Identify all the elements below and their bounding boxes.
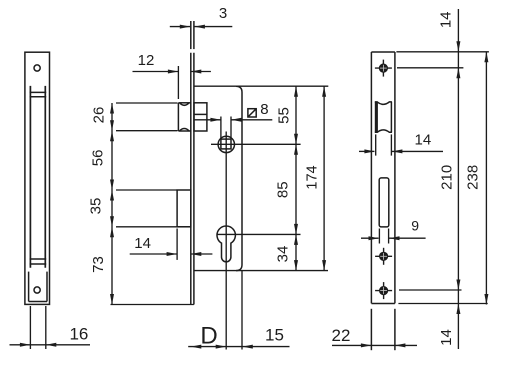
latch face top edge with concave dip: [375, 102, 392, 104]
svg-text:12: 12: [138, 52, 155, 69]
chain arrows at latch bottom: [110, 120, 114, 131]
dim 3 line right: [195, 26, 233, 28]
screw hole bottom: [375, 282, 392, 299]
chain arrow down at faceplate bottom: [110, 294, 114, 305]
extension line faceplate end: [398, 303, 487, 305]
square symbol of dim 8: [248, 109, 256, 117]
dim 8 line right: [231, 119, 272, 121]
left view channel lower edge: [30, 258, 47, 260]
right dimension chain line of middle view: [295, 86, 297, 270]
middle view faceplate left edge: [190, 53, 192, 305]
left dimension chain line: [111, 103, 113, 305]
chain arrow up at case top: [294, 86, 298, 97]
right view strip left edge: [370, 52, 372, 303]
right view strip top edge: [371, 51, 395, 53]
svg-text:22: 22: [332, 326, 351, 345]
chain arrows at deadbolt bottom: [110, 216, 114, 227]
dim 14 width arrow right: [392, 149, 403, 153]
lock case right edge with rounded corners: [236, 86, 242, 270]
svg-text:14: 14: [438, 329, 455, 346]
dim line 14 210 14: [457, 9, 459, 349]
svg-text:9: 9: [411, 218, 419, 234]
dim 9 arrow right: [389, 236, 400, 240]
dim 14 throw line right: [191, 253, 212, 255]
right view strip right edge: [394, 52, 396, 303]
dim 22 arrow right: [395, 343, 406, 347]
svg-text:238: 238: [464, 165, 481, 190]
dim D arrow left: [191, 345, 202, 349]
left chain extension deadbolt bottom: [116, 226, 190, 228]
latch face left thick bar: [375, 102, 378, 133]
chain arrows at deadbolt top: [110, 180, 114, 191]
chain arrow down at case bottom: [294, 260, 298, 271]
chain arrows at follower center: [294, 134, 298, 145]
screw hole top: [375, 60, 392, 77]
dim 16 line: [10, 344, 91, 346]
euro cylinder profile: [217, 226, 235, 262]
arrow up at faceplate end: [456, 304, 460, 315]
dim 14 throw arrow left: [167, 252, 178, 256]
svg-text:3: 3: [219, 5, 227, 22]
latch face bottom edge with concave rise: [375, 130, 392, 132]
cylinder horizontal centerline: [217, 233, 301, 235]
left chain extension latch top: [116, 102, 178, 104]
dim 9 line left: [361, 237, 379, 239]
dim 12 line left: [133, 71, 179, 73]
dim 174 line: [323, 86, 325, 270]
svg-text:85: 85: [275, 181, 292, 198]
deadbolt extended: [177, 190, 191, 227]
follower square hole: [221, 139, 231, 149]
dim 14 width extension left: [375, 134, 377, 155]
dim 14 width line right: [392, 150, 443, 152]
left view bottom bracket right wall: [46, 272, 48, 302]
dim 16 arrow right: [46, 343, 57, 347]
svg-text:14: 14: [415, 132, 432, 149]
left view top screw hole: [34, 65, 40, 71]
dim 12 extension line: [177, 66, 179, 99]
dim 9 arrow left: [369, 236, 380, 240]
dim 9 line right: [389, 237, 426, 239]
svg-text:8: 8: [260, 101, 268, 118]
faceplate end line across strip: [371, 303, 395, 305]
dim 22 line: [332, 344, 417, 346]
case right edge extension line down: [241, 271, 243, 350]
dim 3 arrow right: [194, 25, 205, 29]
lock case top edge with extension: [194, 85, 328, 87]
dim 12 arrow right: [191, 70, 202, 74]
dim 14 throw arrow right: [191, 252, 202, 256]
svg-text:D: D: [200, 323, 217, 350]
dim 174 arrow bottom: [322, 260, 326, 271]
deadbolt opening: [379, 178, 389, 227]
left view bottom bracket left wall: [28, 272, 30, 302]
dim 16 arrow left: [20, 343, 31, 347]
screw hole middle: [375, 248, 392, 265]
middle view faceplate right edge: [193, 53, 195, 305]
deadbolt extension line down: [176, 229, 178, 260]
chain arrows at cylinder center: [294, 224, 298, 235]
arrow up at screw center: [456, 68, 460, 79]
left view case channel right wall: [44, 86, 46, 268]
left chain extension deadbolt top: [116, 189, 177, 191]
dim 9 extension right: [388, 229, 390, 244]
vertical centerline through follower and cylinder: [225, 132, 227, 350]
svg-text:210: 210: [439, 165, 456, 190]
right view strip right edge lower: [394, 309, 396, 350]
dim 9 extension left: [378, 229, 380, 244]
dim 8 arrow right: [231, 118, 242, 122]
left chain extension latch bottom: [116, 130, 178, 132]
svg-text:15: 15: [265, 326, 284, 345]
chain arrow up at latch top: [110, 103, 114, 114]
dim 8 line left: [194, 119, 221, 121]
latch bolt left edge: [177, 103, 179, 131]
dim 14 width arrow left: [364, 149, 375, 153]
svg-text:35: 35: [88, 198, 105, 215]
latch bolt top bevel arc: [180, 103, 190, 105]
dim 8 extension line right: [230, 117, 232, 140]
svg-text:14: 14: [134, 235, 151, 252]
svg-text:34: 34: [275, 246, 292, 263]
latch bolt top edge: [178, 102, 190, 104]
dim 174 arrow top: [322, 86, 326, 97]
dim 238 line: [485, 52, 487, 305]
left view bottom bracket bottom edge: [29, 301, 47, 303]
left view bottom screw hole: [34, 287, 40, 293]
left view channel second edge: [30, 96, 47, 98]
dim 15 arrow: [242, 345, 253, 349]
extension line bottom screw center: [399, 289, 462, 291]
latch bolt bottom bevel arc: [180, 129, 190, 131]
dim 16 extension line right: [45, 306, 47, 349]
latch face right line: [390, 102, 392, 133]
left view channel bottom edge: [30, 263, 47, 265]
svg-text:56: 56: [90, 150, 107, 167]
arrow down at strip top: [456, 41, 460, 52]
dim D and 15 line: [188, 346, 289, 348]
dim 238 arrow bottom: [484, 294, 488, 305]
latch bolt bottom edge: [178, 130, 190, 132]
dim 12 arrow left: [168, 70, 179, 74]
dim 22 arrow left: [361, 343, 372, 347]
extension line strip top: [396, 51, 489, 53]
left view faceplate outline: [25, 52, 50, 304]
dim 8 extension line left: [220, 117, 222, 140]
arrow down at bottom screw: [456, 280, 460, 291]
dim 16 extension line left: [29, 306, 31, 349]
svg-text:26: 26: [90, 107, 107, 124]
dim 12 line right: [191, 71, 211, 73]
left view case channel left wall: [29, 86, 31, 268]
left view channel top edge: [30, 91, 47, 93]
dim 14 width extension right: [390, 134, 392, 155]
dim 8 arrow left: [210, 118, 221, 122]
dim 14 throw line left: [130, 253, 177, 255]
svg-text:14: 14: [438, 11, 455, 28]
latch tail mid line: [194, 113, 207, 115]
dim 3 arrow left: [180, 25, 191, 29]
extension line top screw center: [397, 67, 463, 69]
faceplate bottom extension line: [111, 304, 194, 306]
dim 14 width line left: [359, 150, 374, 152]
square symbol diagonal: [248, 109, 256, 117]
dim 238 arrow top: [484, 52, 488, 63]
middle view faceplate right edge upper: [193, 21, 195, 49]
svg-text:174: 174: [305, 165, 321, 189]
lock case bottom edge with extension: [194, 270, 328, 272]
svg-text:55: 55: [275, 107, 292, 124]
follower circle: [218, 136, 234, 152]
latch tail body: [194, 103, 207, 131]
svg-text:73: 73: [90, 256, 107, 273]
dim D arrow right: [216, 345, 227, 349]
right view strip left edge lower: [370, 309, 372, 350]
dim 3 line left: [170, 26, 190, 28]
middle view faceplate left edge upper: [190, 21, 192, 49]
follower horizontal centerline: [211, 143, 301, 145]
svg-text:16: 16: [69, 325, 88, 344]
